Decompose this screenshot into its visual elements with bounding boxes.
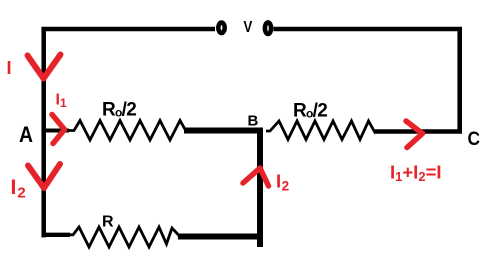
voltmeter terminal right [265,22,271,34]
svg-text:V: V [244,19,253,36]
wire: thick bottom segment to node B vertical [178,234,260,240]
svg-text:C: C [468,129,481,150]
current arrow I2 (down chevron, left branch) [28,164,60,188]
wire: bottom-left stub [44,233,70,237]
wire: node B vertical [257,129,263,247]
resistor R0/2 right zigzag [266,121,376,140]
current arrow I2 (up chevron on node B wire) [243,168,269,186]
svg-text:B: B [248,113,259,130]
svg-text:A: A [19,122,33,147]
current arrow I1 (right chevron at node A) [52,115,65,144]
svg-text:I: I [7,58,12,78]
wire: left vertical + top-left horizontal to voltmeter terminal [44,29,215,237]
wire: top-right horizontal + right vertical down to C [274,29,460,132]
current arrow I (down chevron, top-left) [28,55,61,79]
current arrow I1+I2 (right chevron near C) [406,121,423,148]
svg-text:R: R [102,214,114,231]
resistor R zigzag [69,227,179,247]
resistor R0/2 left zigzag [68,121,186,141]
wire: thick segment into node B [184,128,263,134]
voltmeter terminal left [218,23,224,33]
wire: node A stub [44,129,69,133]
